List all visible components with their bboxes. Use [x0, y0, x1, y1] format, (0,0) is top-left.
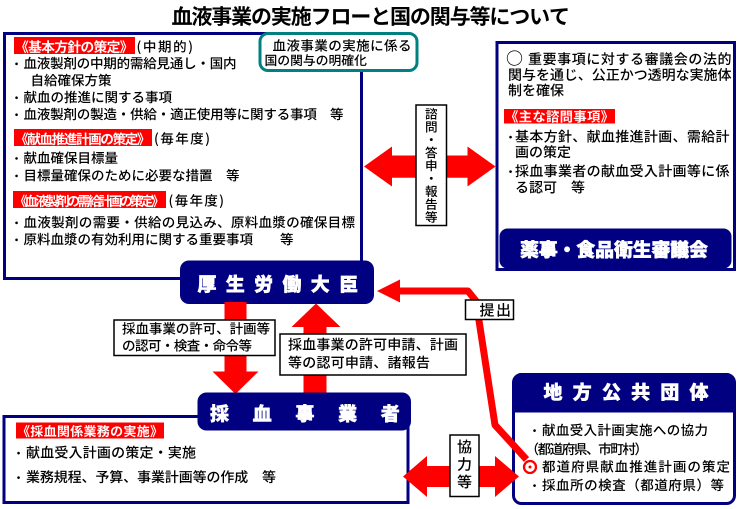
bullet 6 — [15, 221, 18, 224]
box: 国の関与の明確化 callout — [260, 34, 417, 71]
red label: 基本方針の策定 — [14, 37, 135, 54]
bullet r1 — [509, 136, 512, 139]
bullet 3 — [15, 113, 18, 116]
arrowhead: into minister box — [377, 280, 400, 303]
red label: 血液製剤の需給計画の策定 — [13, 191, 166, 208]
text: (毎年度) — [170, 194, 223, 208]
text: 画の策定 — [516, 145, 571, 158]
text: 血液製剤の中期的需給見通し・国内 — [24, 57, 235, 70]
text: 国の関与の明確化 — [266, 54, 367, 66]
text: 提出 — [480, 303, 510, 317]
text: 献血受入計画実施への協力 — [543, 424, 707, 437]
text: 関与を通じ、公正かつ透明な実施体 — [509, 68, 731, 81]
text: 重要事項に対する審議会の法的 — [529, 52, 731, 65]
title: 血液事業の実施フローと国の関与等について — [172, 6, 567, 26]
vtext: 諮問・答申・報告等 — [425, 108, 437, 223]
red label: 主な諮問事項 — [504, 109, 615, 124]
text: 血液事業の実施に係る — [273, 39, 410, 52]
vtext: 協力等 — [457, 440, 471, 489]
bullet g2 — [533, 484, 536, 487]
bullet r2 — [509, 170, 512, 173]
text: 採血所の検査（都道府県）等 — [542, 478, 723, 491]
box: local government outline — [514, 375, 735, 504]
box: local government header — [513, 373, 735, 413]
text: 血液製剤の製造・供給・適正使用等に関する事項 等 — [24, 108, 343, 121]
text: 献血受入計画の策定・実施 — [27, 446, 196, 459]
label text: 《主な諮問事項》 — [512, 110, 607, 123]
bullet b1 — [17, 452, 20, 455]
label text: 《採血関係業務の実施》 — [24, 425, 157, 437]
text: 等の認可申請、諸報告 — [288, 356, 429, 369]
text: 自給確保方策 — [33, 74, 112, 87]
wire: 提出 route (minister to prefecture plan) — [398, 291, 527, 460]
box: council (right) outline — [497, 43, 735, 270]
label text: 《血液製剤の需給計画の策定》 — [21, 195, 158, 208]
text: る認可 等 — [516, 180, 584, 193]
box: 協力等 label — [450, 435, 479, 497]
text: （都道府県、市町村） — [535, 442, 639, 455]
box: 諮問・答申・報告等 label — [416, 105, 447, 226]
text: (中期的) — [138, 40, 192, 54]
label text: 《献血推進計画の策定》 — [22, 132, 143, 145]
bullet 7 — [15, 238, 18, 241]
text: 厚生労働大臣 — [198, 275, 357, 293]
bullet g1 — [533, 429, 536, 432]
text: 採血事業者 — [210, 404, 399, 422]
text: ○ — [507, 50, 522, 65]
text: 血液製剤の需要・供給の見込み、原料血漿の確保目標 — [24, 216, 355, 229]
arrow: minister<->council double arrow — [364, 147, 496, 187]
red label: 献血推進計画の策定 — [14, 129, 152, 146]
arrow: collector<->local government double arrow — [403, 456, 519, 497]
box: collector duties outline — [4, 417, 408, 503]
box: 採血事業者 — [198, 393, 412, 431]
arrow: collector->minister (up) — [292, 304, 341, 395]
text: 基本方針、献血推進計画、需給計 — [515, 130, 729, 143]
label text: 《基本方針の策定》 — [22, 40, 126, 53]
bullet 5 — [15, 175, 18, 178]
text: 制を確保 — [508, 83, 563, 96]
text: 採血事業の許可申請、計画 — [288, 338, 457, 351]
text: 薬事・食品衛生審議会 — [521, 240, 708, 258]
box: council footer bar — [500, 229, 732, 269]
bullet b2 — [17, 476, 20, 479]
arrow: minister->collector (down) — [213, 302, 259, 394]
box: national policy (left) outline — [5, 34, 362, 279]
text: 業務規程、予算、事業計画等の作成 等 — [26, 470, 275, 483]
text: 献血確保目標量 — [24, 151, 117, 164]
text: 都道府県献血推進計画の策定 — [542, 460, 729, 473]
text: 採血事業者の献血受入計画等に係 — [515, 164, 729, 177]
text: 原料血漿の有効利用に関する重要事項 等 — [24, 233, 293, 246]
text: 目標量確保のために必要な措置 等 — [26, 169, 239, 182]
box: permit/inspection label — [114, 320, 275, 356]
box: 提出 label — [466, 300, 514, 320]
text: 採血事業の許可、計画等 — [122, 322, 269, 335]
box: application label — [280, 334, 466, 375]
text: の認可・検査・命令等 — [123, 339, 251, 352]
bullet 1 — [15, 62, 18, 65]
box: 厚生労働大臣 — [180, 261, 374, 305]
text: 地方公共団体 — [544, 383, 709, 401]
node: prefecture-plan circle — [524, 461, 536, 473]
text: 献血の推進に関する事項 — [24, 91, 172, 104]
red label: 採血関係業務の実施 — [16, 423, 164, 439]
bullet 4 — [15, 157, 18, 160]
text: (毎年度) — [155, 132, 209, 146]
bullet 2 — [15, 96, 18, 99]
